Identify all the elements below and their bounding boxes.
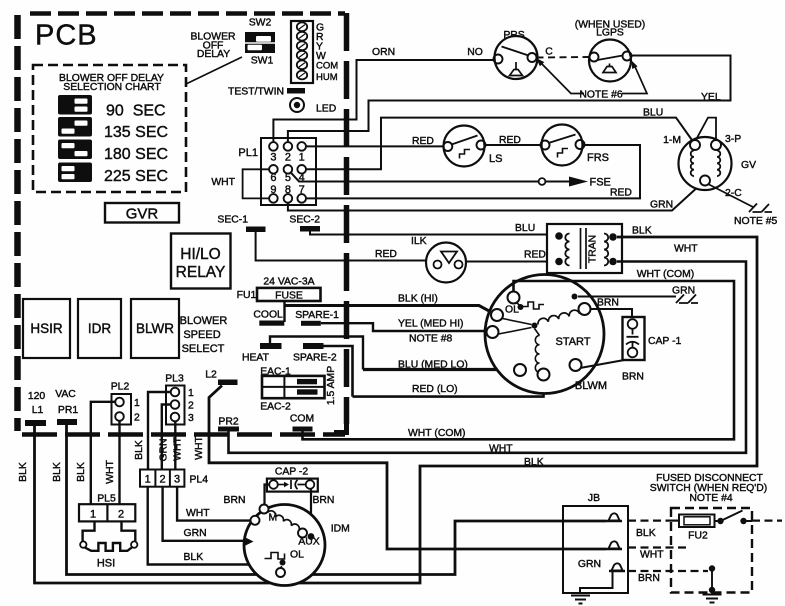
svg-text:BLWR: BLWR [136, 321, 174, 336]
svg-text:RED: RED [412, 136, 434, 147]
svg-text:1: 1 [90, 509, 96, 521]
svg-text:OL: OL [290, 550, 304, 561]
svg-text:FU2: FU2 [688, 531, 708, 542]
svg-text:BLWM: BLWM [575, 380, 607, 392]
svg-text:NOTE #8: NOTE #8 [409, 334, 453, 345]
svg-text:PL2: PL2 [111, 382, 130, 393]
svg-text:SW2: SW2 [249, 18, 272, 29]
svg-text:PL3: PL3 [165, 374, 184, 385]
svg-text:SW1: SW1 [251, 56, 274, 67]
svg-text:SPARE-2: SPARE-2 [293, 353, 337, 364]
svg-text:SELECT: SELECT [182, 343, 225, 355]
svg-text:PL1: PL1 [238, 147, 258, 159]
svg-text:WHT: WHT [489, 444, 513, 455]
svg-text:GV: GV [741, 160, 756, 171]
svg-text:BLU (MED LO): BLU (MED LO) [398, 360, 468, 371]
svg-text:RELAY: RELAY [176, 264, 226, 281]
svg-text:HI/LO: HI/LO [180, 246, 220, 263]
svg-text:BLK: BLK [52, 462, 63, 482]
svg-text:NOTE #6: NOTE #6 [579, 90, 623, 101]
svg-text:HSI: HSI [97, 558, 115, 570]
svg-text:L2: L2 [205, 370, 217, 381]
svg-text:HSIR: HSIR [30, 321, 63, 336]
svg-text:3-P: 3-P [725, 134, 741, 145]
svg-text:BRN: BRN [622, 372, 644, 383]
svg-text:2: 2 [134, 413, 140, 424]
svg-text:COM: COM [316, 61, 338, 72]
svg-text:BLK (HI): BLK (HI) [398, 294, 438, 305]
svg-text:IDR: IDR [88, 321, 112, 336]
svg-text:BLK: BLK [76, 462, 87, 482]
svg-text:1.5 AMP: 1.5 AMP [326, 366, 337, 405]
svg-text:PR2: PR2 [218, 417, 238, 428]
svg-text:SELECTION CHART: SELECTION CHART [63, 82, 161, 93]
svg-text:C: C [545, 47, 553, 58]
svg-text:BLU: BLU [643, 108, 663, 119]
svg-text:WHT (COM): WHT (COM) [408, 428, 466, 439]
svg-text:120: 120 [28, 391, 46, 402]
svg-text:IDM: IDM [331, 524, 350, 535]
svg-text:DELAY: DELAY [197, 49, 230, 60]
svg-text:NOTE #5: NOTE #5 [734, 216, 778, 227]
svg-text:BLU: BLU [515, 223, 535, 234]
svg-text:GRN: GRN [578, 559, 601, 570]
svg-text:SPARE-1: SPARE-1 [295, 310, 339, 321]
svg-text:START: START [555, 336, 590, 348]
svg-text:WHT (COM): WHT (COM) [637, 269, 695, 280]
svg-text:3: 3 [188, 413, 194, 424]
svg-text:1: 1 [299, 152, 305, 164]
svg-text:LED: LED [316, 104, 336, 115]
svg-text:PL5: PL5 [97, 494, 116, 505]
svg-text:L1: L1 [32, 405, 44, 416]
svg-text:FU1: FU1 [237, 290, 257, 301]
svg-text:PR1: PR1 [58, 405, 78, 416]
svg-text:LGPS: LGPS [596, 28, 624, 39]
svg-text:GVR: GVR [126, 206, 159, 223]
svg-text:JB: JB [588, 493, 600, 504]
svg-text:FSE: FSE [590, 177, 611, 189]
svg-text:M: M [269, 513, 278, 524]
svg-text:BLK: BLK [524, 457, 544, 468]
svg-text:YEL (MED HI): YEL (MED HI) [398, 319, 463, 330]
svg-text:GRN: GRN [650, 200, 673, 211]
svg-text:NO: NO [467, 47, 483, 58]
svg-text:8: 8 [285, 184, 291, 196]
svg-text:2: 2 [188, 401, 194, 412]
svg-text:1: 1 [145, 474, 151, 486]
svg-text:COOL: COOL [253, 310, 283, 321]
svg-text:135 SEC: 135 SEC [104, 124, 168, 141]
svg-text:180 SEC: 180 SEC [104, 146, 168, 163]
svg-text:WHT: WHT [105, 460, 116, 484]
svg-text:VAC: VAC [55, 389, 76, 400]
svg-text:3: 3 [270, 152, 276, 164]
svg-text:1-M: 1-M [663, 135, 681, 146]
svg-text:BLK: BLK [632, 226, 652, 237]
svg-text:GRN: GRN [159, 438, 170, 461]
svg-text:5: 5 [285, 172, 291, 184]
svg-text:HEAT: HEAT [242, 353, 270, 364]
svg-text:PCB: PCB [35, 20, 98, 52]
svg-text:TRAN: TRAN [588, 235, 599, 263]
svg-text:YEL: YEL [701, 92, 721, 103]
svg-text:ILK: ILK [411, 236, 427, 247]
svg-text:3: 3 [174, 474, 180, 486]
svg-text:WHT: WHT [640, 550, 664, 561]
svg-text:CAP -2: CAP -2 [275, 467, 309, 478]
svg-text:90 SEC: 90 SEC [106, 103, 166, 120]
svg-text:BRN: BRN [313, 495, 335, 506]
svg-text:RED: RED [610, 188, 632, 199]
svg-text:ORN: ORN [372, 47, 395, 58]
svg-text:BLK: BLK [184, 552, 204, 563]
svg-text:9: 9 [270, 184, 276, 196]
svg-text:OL: OL [505, 305, 519, 316]
svg-text:SEC-1: SEC-1 [217, 215, 248, 226]
svg-text:1: 1 [134, 398, 140, 409]
svg-text:FUSE: FUSE [275, 291, 303, 302]
svg-text:RED: RED [524, 250, 546, 261]
svg-text:BRN: BRN [224, 495, 246, 506]
svg-text:SPEED: SPEED [183, 329, 220, 341]
svg-text:LS: LS [489, 153, 502, 165]
svg-text:BLK: BLK [134, 440, 145, 460]
svg-text:2: 2 [160, 474, 166, 486]
svg-text:NOTE #4: NOTE #4 [689, 493, 733, 504]
svg-text:BLOWER: BLOWER [180, 315, 228, 327]
svg-text:CAP -1: CAP -1 [648, 336, 682, 347]
svg-text:6: 6 [270, 172, 276, 184]
svg-text:HUM: HUM [316, 72, 338, 83]
svg-text:2: 2 [285, 152, 291, 164]
svg-text:2: 2 [118, 509, 124, 521]
svg-text:PL4: PL4 [190, 475, 209, 486]
svg-text:TEST/TWIN: TEST/TWIN [228, 87, 284, 98]
svg-text:BLK: BLK [18, 462, 29, 482]
svg-text:225 SEC: 225 SEC [104, 168, 168, 185]
svg-text:WHT: WHT [173, 437, 184, 461]
svg-text:RED: RED [375, 249, 397, 260]
svg-text:BRN: BRN [638, 573, 660, 584]
svg-text:EAC-2: EAC-2 [260, 402, 291, 413]
svg-text:SEC-2: SEC-2 [289, 215, 320, 226]
svg-text:BRN: BRN [597, 298, 619, 309]
svg-text:BLK: BLK [636, 528, 656, 539]
svg-text:7: 7 [299, 184, 305, 196]
svg-text:WHT: WHT [211, 177, 235, 188]
svg-text:24 VAC-3A: 24 VAC-3A [263, 277, 314, 288]
svg-text:FRS: FRS [587, 152, 609, 164]
svg-text:1: 1 [188, 388, 194, 399]
svg-text:AUX: AUX [298, 537, 319, 548]
svg-text:WHT: WHT [674, 244, 698, 255]
svg-text:WHT: WHT [186, 508, 210, 519]
svg-text:RED (LO): RED (LO) [412, 384, 458, 395]
svg-text:WHT: WHT [194, 436, 205, 460]
svg-text:COM: COM [290, 414, 314, 425]
svg-text:GRN: GRN [184, 528, 207, 539]
